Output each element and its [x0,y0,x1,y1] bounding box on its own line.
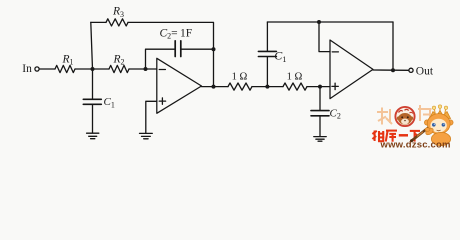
capacitor C1 (right, series) [258,51,276,56]
ground below C2 [314,137,326,142]
wire feedback capacitor to output column [182,48,214,50]
node B junction dot [265,85,269,89]
svg-text:www.dzsc.com: www.dzsc.com [380,140,451,150]
wire C1 up to feedback rail [266,22,268,51]
capacitor C2 = 1F (U1 feedback) [175,41,181,57]
U2 minus sign [332,51,338,53]
watermark mascot crown [430,111,451,119]
resistor 1 ohm (first) [228,83,252,90]
wire U1 output to first 1-ohm resistor [202,86,229,88]
watermark mascot eyes [432,123,445,131]
wire rail tap down to U2 inverting input [319,22,330,52]
watermark red character wei [372,131,384,142]
feedback rail junction dot [317,20,321,24]
wire C1 to ground [92,105,94,133]
wire input to R1 [39,68,55,70]
wire top rail left segment [91,21,106,23]
svg-text:1 Ω: 1 Ω [287,72,303,83]
svg-text:Out: Out [416,66,434,78]
resistor 1 ohm (second) [283,83,307,90]
watermark red character yi [399,134,408,137]
wire U1 non-inverting input to ground [146,101,157,133]
watermark red character xia [410,131,420,142]
wire second 1-ohm to U2 non-inverting input [307,86,330,88]
op-amp U2 [330,40,373,99]
wire U2 output to Out terminal [373,69,409,71]
svg-text:In: In [22,63,32,75]
watermark mascot head [427,114,450,134]
watermark mascot ears [424,120,453,125]
U2 plus sign [332,83,338,89]
resistor R1 [55,65,75,72]
wire C2 to ground [319,116,321,136]
wire top rail right segment to U1 output column [128,22,214,86]
svg-text:C2= 1F: C2= 1F [160,27,193,40]
U1 plus sign [159,98,165,104]
wire U2 output column up to feedback rail [392,22,394,70]
watermark mascot crown balls [432,105,447,114]
resistor R2 [109,65,129,72]
ground U1 plus input [140,133,153,138]
op-amp U1 [157,58,202,113]
feedback capacitor junction dot [212,47,216,51]
U1 output junction dot [212,85,216,89]
watermark mascot face [430,119,446,133]
watermark red character ku [386,131,397,142]
watermark mascot staff [410,128,430,143]
wire node A up to R3 rail [91,22,93,69]
wire node C down to C2 [319,87,321,111]
U1 minus sign [159,69,165,71]
wire node A down to C1 [92,69,94,99]
summing node junction dot [144,67,148,71]
watermark emblem circle [395,107,414,126]
wire R1 to node A [75,68,109,70]
watermark faint character 1 [377,108,392,125]
wire node B up to C1 [266,57,268,87]
output terminal Out [409,68,413,72]
watermark faint character 2 [418,105,432,121]
node A junction dot [91,67,95,71]
wire summing node up to feedback capacitor [146,49,175,69]
capacitor C1 (left, to ground) [83,99,101,104]
ground below C1 [87,133,99,139]
wire U2 feedback rail [267,21,393,23]
svg-text:1 Ω: 1 Ω [232,72,248,83]
U2 output junction dot [391,68,395,72]
input terminal In [35,67,39,71]
resistor R3 [106,19,128,26]
capacitor C2 (right, to ground) [311,111,329,116]
wire between 1-ohm resistors [252,86,283,88]
watermark mascot body [425,127,451,146]
node C junction dot [318,85,322,89]
wire R2 to op-amp U1 inverting input [129,68,157,70]
